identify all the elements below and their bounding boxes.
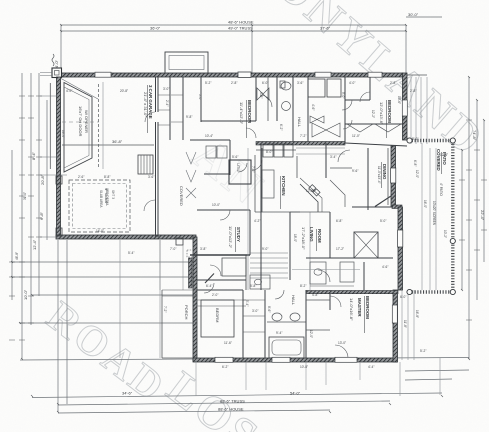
lower hall step: [245, 255, 247, 290]
lower-left horizontal dim 2: [20, 322, 196, 324]
garage apron edge line: [49, 83, 51, 169]
door arc 4: [318, 270, 330, 282]
garage door bay inner line: [64, 87, 89, 168]
entry chamfer diagonal: [205, 274, 214, 284]
right wing extension line 1: [410, 77, 412, 144]
right wing extension line 4: [426, 77, 428, 144]
apron diagonal from corner: [61, 79, 98, 100]
nook diagonal: [330, 180, 345, 207]
entry porch column: [176, 238, 183, 245]
patio north dotted wall: [409, 139, 454, 142]
garage interior dim line: [62, 144, 154, 146]
left dim vertical 2: [21, 73, 23, 359]
lower right extension 2: [407, 290, 409, 360]
window marker bottom wall 1: [215, 357, 233, 362]
storage slab inner dashed rect: [73, 184, 127, 229]
window marker bottom wall 3: [335, 357, 357, 362]
front door arc: [204, 283, 214, 293]
chimney inner rect: [169, 56, 204, 70]
top dim vertical left end: [60, 25, 62, 72]
upper hall bottom wall: [190, 139, 230, 141]
micro dim texts rotated: [15, 92, 447, 338]
nook window seat: [330, 167, 352, 169]
closet bowtie doors right: [310, 116, 324, 123]
sink squares on diagonal counter: [309, 185, 320, 196]
garage door arc to house: [144, 200, 155, 211]
hall opening X: [186, 188, 196, 198]
kitchen counter edge: [255, 211, 300, 213]
lower bath sink 2: [290, 313, 300, 321]
center vertical wall x261: [260, 143, 262, 290]
study east wall: [249, 210, 251, 255]
window marker master east: [392, 305, 397, 323]
pantry cabinet boxes: [263, 144, 293, 157]
porch column lower left 2: [56, 228, 62, 236]
left dim cross ticks: [9, 96, 42, 340]
upper bath divider: [267, 77, 269, 121]
bottom right short dim line 1: [405, 370, 469, 371]
bottom dim line 1: [32, 393, 442, 398]
window marker top wall 2: [95, 72, 111, 77]
garage stairs: [138, 155, 153, 174]
bath1 partition: [292, 77, 294, 143]
right dim vertical 1: [461, 150, 463, 290]
door arc 3: [338, 150, 350, 162]
lower right extension 3: [413, 290, 415, 360]
wh pad: [340, 262, 354, 282]
right dim vertical 3: [476, 100, 478, 300]
pantry shelf lines: [296, 148, 345, 154]
patio east dotted wall: [451, 141, 454, 292]
storage slab dashed rect: [69, 180, 130, 232]
garage/house party wall: [155, 77, 157, 237]
right dim vertical 2: [468, 77, 470, 359]
bed3 closet door V lines: [347, 124, 401, 132]
top dimension line 2: [61, 30, 406, 32]
dim line y269: [292, 269, 360, 271]
lower right extension 1: [401, 290, 403, 360]
lower bath east wall: [305, 290, 307, 358]
garage door bay trapezoid: [64, 83, 92, 173]
bath1 fixtures toilet: [281, 82, 291, 90]
master bath toilet: [314, 269, 322, 275]
patio extension vertical 1: [429, 148, 431, 290]
window marker bottom wall 2: [272, 357, 290, 362]
fireplace X: [354, 232, 378, 258]
dining bay chamfer: [375, 196, 391, 207]
garage/house party wall inner line: [157, 77, 159, 237]
dining east window wall: [387, 148, 389, 205]
bottom exterior wall: [193, 358, 397, 362]
dining west wall: [367, 148, 369, 210]
window marker bed3 east: [402, 100, 407, 116]
lower bath west wall: [264, 290, 266, 358]
right wing extension line 2: [415, 77, 417, 144]
right wing extension line 3: [420, 77, 422, 144]
garage left wall: [57, 77, 61, 237]
hall east wall: [344, 77, 346, 143]
master bath vanity: [310, 285, 354, 287]
fireplace stub wall: [363, 262, 365, 290]
garage door dashed line: [98, 84, 100, 167]
patio corner posts: [407, 138, 456, 295]
patio inner dim vertical: [421, 143, 423, 290]
powder toilet: [255, 279, 262, 285]
bottom boundary line: [20, 358, 469, 361]
entry closet: [222, 258, 246, 276]
lower suite bedroom walls: [201, 300, 234, 337]
utility wall dark: [229, 160, 251, 184]
master west wall: [329, 290, 331, 310]
wall at x310: [307, 77, 309, 143]
dining south wall: [352, 206, 393, 208]
interior extension line b: [309, 212, 311, 290]
bath1 west wall: [255, 77, 257, 121]
bath1 east wall: [276, 77, 278, 121]
garage bottom wall: [56, 235, 196, 239]
entry wall: [197, 279, 246, 281]
master closet lines: [306, 300, 330, 330]
label underlines: [148, 85, 442, 333]
door arc study: [220, 210, 230, 220]
lower hall wall: [197, 289, 243, 291]
top exterior wall: [58, 73, 403, 77]
breakfast bar: [290, 211, 330, 213]
entry stub wall: [189, 258, 193, 288]
hall door arc tr: [342, 100, 352, 110]
lower-left horizontal dim 1: [32, 294, 196, 296]
hall wall left of bedroom2: [169, 77, 171, 140]
kitchen diagonal counter: [300, 184, 318, 212]
living/master wall: [330, 257, 393, 259]
bed3 bowtie doors: [312, 123, 340, 137]
mid-left horizontal dim 2: [12, 276, 196, 278]
entry west wall: [193, 237, 197, 361]
entry column dashed: [187, 250, 193, 257]
hall double door V 2: [186, 170, 196, 182]
bottom dim line 2: [58, 401, 390, 405]
bottom dim line 3: [58, 410, 330, 413]
left dim vertical 3: [30, 73, 32, 325]
micro dim texts scattered: [66, 81, 448, 369]
top right room divider: [369, 77, 371, 100]
door arc 5: [210, 265, 221, 276]
window marker top wall 3: [315, 72, 331, 77]
bath entry bowtie doors: [257, 88, 269, 100]
bed3 door arc: [360, 92, 370, 102]
left wall ext ticks: [40, 96, 67, 237]
utility appliance rects 2: [217, 146, 227, 158]
wing south thin wall: [345, 143, 407, 146]
interior extension line c: [159, 240, 161, 358]
porch column lower left: [56, 176, 62, 184]
study south wall: [190, 254, 250, 256]
east wall window 2: [398, 230, 403, 247]
bottom left connector 2: [66, 240, 68, 404]
hall double door V 1: [186, 152, 196, 164]
master bedroom east wall: [393, 290, 398, 362]
window marker top wall 4: [368, 72, 382, 77]
entry step lines: [197, 300, 246, 306]
top wall thin extension right: [407, 74, 427, 76]
patio extension vertical 2: [435, 148, 437, 290]
left dim vertical 4: [38, 73, 40, 296]
upper right closet arcs: [343, 120, 352, 129]
bottom right connector x440: [439, 358, 441, 395]
house east wall living segment: [398, 207, 403, 290]
patio south dotted wall: [409, 290, 454, 293]
right dim vertical 4: [483, 120, 485, 262]
top dimension line 1: [61, 24, 406, 26]
left dim vertical 5: [46, 100, 48, 240]
toilet tank rect: [280, 81, 285, 88]
closet wall: [182, 77, 184, 140]
house east wall dining segment: [391, 146, 396, 207]
bed3 entry wall: [345, 99, 370, 101]
bath1 sink: [282, 102, 291, 111]
chimney box on top wall: [165, 52, 208, 73]
corner entry thin lines: [40, 73, 52, 76]
porch south lines: [162, 290, 197, 296]
bottom wall connectors: [196, 362, 360, 396]
dim break squiggle above corner: [52, 54, 54, 66]
lower bedroom outer wall: [242, 290, 244, 358]
bedroom wing east wall: [403, 73, 408, 140]
fireplace box: [354, 232, 378, 258]
kitchen island: [262, 170, 274, 198]
hall runs vertical 1: [261, 148, 263, 212]
master north bearing wall hatched: [306, 291, 398, 294]
top right short dim line: [406, 16, 442, 18]
bed3 closet rects 2: [327, 79, 341, 97]
bottom connector x400: [399, 362, 401, 396]
top dim vertical mid: [251, 25, 253, 73]
party wall door gap: [155, 112, 159, 122]
mid-left horizontal dim 1: [12, 261, 196, 263]
top-left corner post: [52, 68, 62, 78]
garage inner dim vertical: [102, 82, 104, 169]
utility walls: [229, 140, 231, 175]
garage ceiling dashes: [62, 121, 99, 123]
door arc 1: [260, 95, 272, 107]
right dim cross ticks: [459, 120, 487, 320]
kitchen back counter: [256, 149, 296, 151]
scan noise overlay: [0, 0, 1, 1]
lower closet lines: [243, 300, 265, 332]
lower bath sink 1: [272, 313, 282, 321]
top dim vertical right end: [405, 25, 407, 74]
garage door arc upper: [145, 112, 155, 122]
mid horizontal bearing wall y143 hatched: [256, 142, 345, 146]
lower bath tub inner: [272, 340, 301, 355]
bedroom2/hall wall: [201, 120, 256, 122]
bed3 closet front wall: [345, 123, 403, 125]
corner post inner mark: [55, 71, 60, 76]
interior extension line d: [119, 240, 121, 358]
living room west wall: [289, 212, 291, 280]
bottom right short dim line 2: [405, 379, 452, 380]
powder room: [250, 275, 270, 289]
utility bottom: [204, 173, 230, 175]
porch west edge: [161, 290, 163, 358]
stairwell lines lower center: [250, 253, 288, 278]
master bath toilet room: [310, 262, 326, 284]
door arc master entry: [330, 296, 341, 307]
lower bath tub: [269, 337, 304, 358]
window marker top wall: [238, 72, 251, 77]
porch bottom: [162, 357, 193, 359]
bottom left connector 1: [57, 240, 59, 412]
master suite inner wall: [306, 257, 330, 259]
closet shelves: [158, 95, 183, 125]
door arc kitchen: [252, 160, 262, 170]
door arc 2: [246, 128, 256, 138]
bedroom2 west wall: [200, 77, 202, 122]
kitchen diagonal counter inner: [300, 178, 322, 212]
study north wall: [197, 209, 250, 211]
door arc lower bath: [275, 290, 284, 299]
kitchen right counter: [296, 156, 298, 178]
east wall step at y207: [392, 205, 402, 209]
bed3 closet rects: [308, 79, 325, 97]
living north wall: [329, 212, 331, 258]
garage stairs treads: [141, 155, 150, 174]
entry porch area lines: [160, 240, 183, 290]
lower bath sink counter: [267, 321, 306, 323]
utility door arc: [238, 163, 247, 172]
left dim vertical 1: [11, 150, 13, 300]
door arc 6: [335, 345, 348, 358]
utility appliance rects: [206, 146, 216, 158]
east wall window 1: [391, 168, 396, 183]
interior extension line a: [247, 148, 249, 290]
kitchen west counter: [254, 155, 256, 212]
bay hall wall: [325, 143, 327, 178]
